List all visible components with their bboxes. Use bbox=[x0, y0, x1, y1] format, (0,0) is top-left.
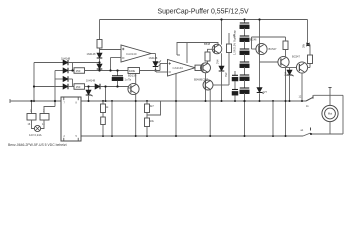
svg-text:4k7: 4k7 bbox=[150, 105, 155, 108]
svg-text:1N4148: 1N4148 bbox=[149, 57, 158, 60]
svg-text:100k: 100k bbox=[129, 69, 136, 73]
svg-text:Z5U: Z5U bbox=[224, 73, 227, 78]
svg-text:Benz-0646-2PW-5F-US 5 VDC behe: Benz-0646-2PW-5F-US 5 VDC beheizt bbox=[8, 143, 67, 147]
svg-text:1N4148: 1N4148 bbox=[86, 79, 96, 83]
svg-text:CA3140: CA3140 bbox=[126, 52, 137, 56]
svg-text:CA3140: CA3140 bbox=[173, 66, 184, 70]
svg-text:12V 0,24A: 12V 0,24A bbox=[29, 133, 42, 137]
svg-text:150: 150 bbox=[76, 69, 81, 73]
svg-text:2V7: 2V7 bbox=[263, 91, 268, 94]
svg-text:Mot: Mot bbox=[328, 112, 333, 116]
svg-text:BC547: BC547 bbox=[269, 47, 277, 51]
svg-text:BC547: BC547 bbox=[292, 55, 300, 59]
svg-text:1,5F/2,5V Supercap: 1,5F/2,5V Supercap bbox=[233, 30, 237, 55]
svg-text:2V4: 2V4 bbox=[217, 59, 220, 64]
svg-text:150: 150 bbox=[76, 85, 81, 89]
svg-text:B548: B548 bbox=[204, 42, 211, 46]
svg-text:1u Ta: 1u Ta bbox=[125, 78, 132, 82]
svg-text:1N4148: 1N4148 bbox=[87, 52, 97, 56]
svg-text:SuperCap-Puffer 0,55F/12,5V: SuperCap-Puffer 0,55F/12,5V bbox=[158, 9, 249, 16]
svg-text:2V4: 2V4 bbox=[285, 71, 288, 76]
svg-text:1N4148: 1N4148 bbox=[61, 57, 71, 61]
svg-text:BC46: BC46 bbox=[250, 38, 257, 42]
